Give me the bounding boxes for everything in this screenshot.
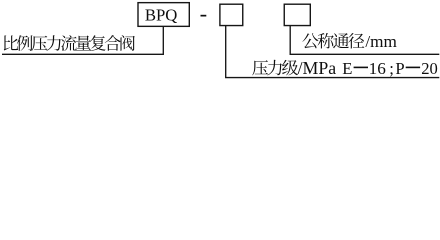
- em dash between P and 20: [406, 67, 420, 69]
- svg-text:/MPa: /MPa: [298, 58, 337, 78]
- svg-text:/mm: /mm: [365, 32, 397, 51]
- svg-text:BPQ: BPQ: [145, 6, 177, 25]
- model designation diagram: [0, 0, 440, 81]
- label text "比例压力流量复合阀": [4, 35, 135, 51]
- svg-text:16: 16: [369, 59, 387, 78]
- em dash between E and 16: [354, 67, 368, 69]
- wire from square 2 down to nominal-diameter label underline: [290, 25, 439, 54]
- model code box "BPQ": [138, 3, 189, 27]
- label text "公称通径": [302, 33, 364, 49]
- svg-text:20: 20: [421, 59, 438, 78]
- label text "压力级": [252, 60, 298, 76]
- wire from square 1 down to pressure-class label underline: [226, 25, 440, 77]
- svg-text:P: P: [395, 59, 404, 78]
- svg-text:;: ;: [389, 59, 394, 78]
- code square 1 (pressure class digit): [220, 4, 243, 25]
- svg-text:E: E: [342, 59, 352, 78]
- wire from BPQ box down-left to valve-name label underline: [2, 26, 163, 54]
- hyphen separator: [201, 15, 207, 17]
- code square 2 (nominal diameter digit): [284, 4, 310, 25]
